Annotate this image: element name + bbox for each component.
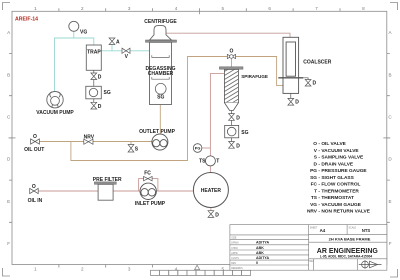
svg-text:TRAP: TRAP xyxy=(87,50,101,56)
svg-text:8: 8 xyxy=(362,6,365,11)
svg-text:A4: A4 xyxy=(320,228,326,233)
svg-text:D: D xyxy=(314,162,318,168)
svg-text:6: 6 xyxy=(268,6,271,11)
svg-text:FC: FC xyxy=(311,182,318,188)
svg-text:OUTLET PUMP: OUTLET PUMP xyxy=(139,129,175,135)
svg-text:O: O xyxy=(32,184,36,190)
svg-text:SPIRAFUGE: SPIRAFUGE xyxy=(241,74,268,79)
svg-text:1: 1 xyxy=(34,267,37,272)
svg-text:2H KVA BASE FRAME: 2H KVA BASE FRAME xyxy=(329,237,371,242)
svg-text:D: D xyxy=(236,116,240,122)
svg-text:D: D xyxy=(295,100,299,106)
svg-text:SG: SG xyxy=(310,175,317,181)
svg-text:D: D xyxy=(98,75,102,81)
svg-text:- NON RETURN VALVE: - NON RETURN VALVE xyxy=(318,209,370,215)
svg-text:ABK: ABK xyxy=(256,246,264,250)
svg-text:INLET PUMP: INLET PUMP xyxy=(135,201,166,207)
svg-text:ADITYA: ADITYA xyxy=(256,241,269,245)
svg-text:AREIF-14: AREIF-14 xyxy=(15,16,38,22)
svg-text:T: T xyxy=(314,189,317,195)
svg-text:NTS: NTS xyxy=(362,228,371,233)
svg-text:0: 0 xyxy=(256,261,258,265)
svg-text:- SAMPLING VALVE: - SAMPLING VALVE xyxy=(318,155,364,161)
svg-text:HEATER: HEATER xyxy=(201,188,222,194)
svg-text:OIL OUT: OIL OUT xyxy=(24,147,44,153)
svg-text:TS: TS xyxy=(199,158,206,164)
svg-text:- PRESSURE GAUGE: - PRESSURE GAUGE xyxy=(318,168,367,174)
svg-text:CLNTS: CLNTS xyxy=(231,258,239,260)
svg-text:- THERMOSTAT: - THERMOSTAT xyxy=(318,195,354,201)
svg-text:COALSCER: COALSCER xyxy=(303,60,331,66)
svg-text:TS: TS xyxy=(311,195,318,201)
svg-text:5: 5 xyxy=(222,267,225,272)
svg-text:ABK: ABK xyxy=(256,251,264,255)
svg-text:L-95, ADDL MIDC, SATARA-415004: L-95, ADDL MIDC, SATARA-415004 xyxy=(320,255,373,259)
svg-text:- OIL VALVE: - OIL VALVE xyxy=(318,141,346,147)
svg-text:D: D xyxy=(215,212,219,218)
svg-text:ADITYA: ADITYA xyxy=(256,256,269,260)
svg-text:E: E xyxy=(7,199,10,204)
svg-text:DRWN: DRWN xyxy=(231,243,238,245)
svg-text:3: 3 xyxy=(128,267,131,272)
svg-text:F: F xyxy=(389,241,392,246)
svg-text:- THERMOMETER: - THERMOMETER xyxy=(318,189,359,195)
svg-text:- FLOW CONTROL: - FLOW CONTROL xyxy=(318,182,360,188)
svg-text:O: O xyxy=(33,134,37,140)
svg-text:PRE FILTER: PRE FILTER xyxy=(93,177,122,183)
svg-text:SG: SG xyxy=(241,130,248,136)
svg-text:D: D xyxy=(236,144,240,150)
svg-text:- VACUUM VALVE: - VACUUM VALVE xyxy=(318,148,359,154)
svg-text:B: B xyxy=(389,72,392,77)
svg-text:PG: PG xyxy=(310,168,317,174)
svg-text:3: 3 xyxy=(128,6,131,11)
svg-text:SG: SG xyxy=(157,94,164,100)
svg-text:SCALE: SCALE xyxy=(349,227,357,230)
svg-text:NRV: NRV xyxy=(84,134,95,140)
svg-text:O: O xyxy=(313,141,317,147)
svg-text:OIL IN: OIL IN xyxy=(28,198,43,204)
svg-text:VG: VG xyxy=(310,202,317,208)
svg-text:B: B xyxy=(7,72,10,77)
svg-text:CHAMBER: CHAMBER xyxy=(148,71,174,77)
svg-text:5: 5 xyxy=(222,6,225,11)
svg-text:- DRAIN VALVE: - DRAIN VALVE xyxy=(318,162,354,168)
svg-text:7: 7 xyxy=(315,6,318,11)
svg-text:4: 4 xyxy=(175,6,178,11)
svg-text:- VACUUM GAUGE: - VACUUM GAUGE xyxy=(318,202,361,208)
svg-text:D: D xyxy=(98,104,102,110)
svg-text:E: E xyxy=(389,199,392,204)
svg-text:VACUUM PUMP: VACUUM PUMP xyxy=(36,110,74,116)
svg-text:APPD: APPD xyxy=(231,252,238,255)
svg-text:NRV: NRV xyxy=(307,209,318,215)
svg-text:- SIGHT GLASS: - SIGHT GLASS xyxy=(318,175,354,181)
svg-text:2: 2 xyxy=(81,6,84,11)
svg-text:VG: VG xyxy=(80,30,87,36)
svg-text:D: D xyxy=(313,81,317,87)
svg-text:SIZE: SIZE xyxy=(231,238,237,240)
svg-text:CHKD: CHKD xyxy=(231,248,238,250)
svg-text:O: O xyxy=(230,49,234,55)
svg-text:REV: REV xyxy=(231,263,236,265)
svg-text:T: T xyxy=(216,158,219,164)
svg-text:F: F xyxy=(7,241,10,246)
svg-text:A: A xyxy=(116,39,120,45)
svg-text:SHEET: SHEET xyxy=(310,228,318,230)
svg-text:1: 1 xyxy=(34,6,37,11)
svg-text:2: 2 xyxy=(81,267,84,272)
svg-text:CENTRIFUGE: CENTRIFUGE xyxy=(144,19,177,25)
svg-text:REMARKS: REMARKS xyxy=(231,267,243,270)
svg-text:FC: FC xyxy=(144,171,151,177)
svg-text:SG: SG xyxy=(104,90,111,96)
svg-text:4: 4 xyxy=(175,267,178,272)
svg-text:PG: PG xyxy=(195,146,201,151)
svg-text:REF: REF xyxy=(310,261,315,263)
